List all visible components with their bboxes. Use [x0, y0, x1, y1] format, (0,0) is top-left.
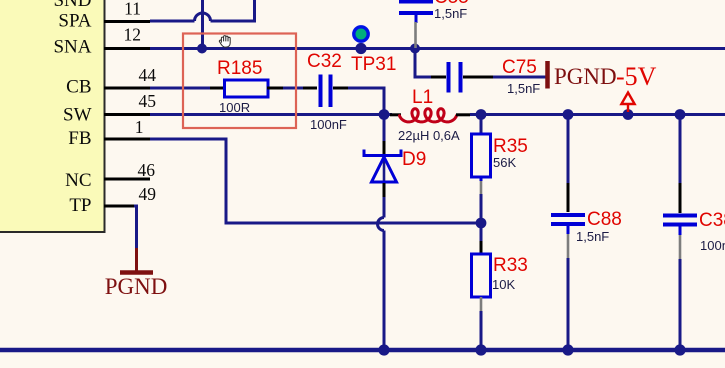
label C75 — [502, 57, 537, 78]
junction bottom x680 — [674, 344, 685, 355]
wire FB net — [150, 139, 481, 223]
junction rail x384 — [379, 109, 390, 120]
value 22uH 0,6A — [398, 128, 460, 143]
inductor L1 coil — [400, 109, 457, 122]
label L1 — [412, 87, 433, 108]
wire rail L1 to right edge — [470, 113, 725, 116]
pin 46 stub — [104, 178, 150, 181]
wire SPA net horizontal with hop — [150, 0, 256, 23]
wire C75 branch from SNA junction — [415, 49, 431, 78]
capacitor C88 plates — [551, 215, 585, 224]
junction SNA under TP31 — [355, 43, 366, 54]
wire bottom ground rail — [0, 348, 725, 353]
label C38 (clipped) — [699, 210, 725, 231]
junction bottom x481 — [475, 344, 486, 355]
svg-text:PGND: PGND — [105, 274, 168, 299]
svg-text:CB: CB — [66, 77, 91, 98]
capacitor C88 bottom lead — [567, 226, 570, 350]
resistor R33 bottom lead — [480, 297, 483, 350]
svg-text:1,5nF: 1,5nF — [507, 81, 540, 96]
svg-text:R185: R185 — [217, 58, 262, 79]
pin 45 stub — [104, 113, 150, 116]
value 56K — [493, 155, 516, 170]
pin SNA name — [53, 37, 91, 58]
junction rail x568 — [563, 109, 574, 120]
label R35 — [493, 136, 528, 157]
pin 12 number — [124, 25, 142, 45]
pin 46 number — [138, 160, 156, 180]
svg-text:SW: SW — [63, 105, 92, 126]
svg-text:100nF: 100nF — [310, 117, 347, 132]
resistor R35 bottom lead (gray+navy) — [480, 177, 483, 223]
svg-text:FB: FB — [68, 128, 91, 149]
junction rail x680 — [675, 109, 686, 120]
wire SW rail — [150, 113, 392, 116]
wire C32 to corner down to SW rail — [348, 88, 384, 115]
svg-text:1,5nF: 1,5nF — [576, 229, 609, 244]
svg-text:49: 49 — [139, 184, 157, 204]
capacitor C75 plates — [449, 62, 461, 93]
svg-text:NC: NC — [65, 170, 91, 191]
power port PGND text — [554, 64, 617, 89]
label C55 (clipped) — [434, 0, 469, 8]
wire TP pin to PGND — [134, 206, 137, 248]
capacitor C55 plates — [399, 2, 433, 24]
pin SPA name — [58, 11, 91, 32]
pin 44 number — [139, 65, 157, 85]
label TP31 — [351, 54, 396, 75]
junction FB x481 — [476, 218, 487, 229]
capacitor C88 top lead — [567, 115, 570, 213]
svg-text:SND: SND — [53, 0, 91, 11]
svg-text:C32: C32 — [307, 51, 342, 72]
pin TP name — [69, 195, 91, 216]
pin 12 stub — [104, 47, 150, 50]
pin 49 stub — [104, 205, 134, 208]
svg-text:TP: TP — [69, 195, 91, 216]
pin 11 number — [124, 0, 141, 19]
capacitor C38 top lead — [679, 115, 682, 214]
svg-text:L1: L1 — [412, 87, 433, 108]
junction rail x481 — [476, 109, 487, 120]
label R185 — [217, 58, 262, 79]
pin 1 stub — [104, 138, 150, 141]
resistor R33 top lead — [480, 223, 483, 254]
pin 49 number — [139, 184, 157, 204]
value 100nF (clipped) — [700, 238, 725, 253]
capacitor C75 right pin — [463, 76, 493, 79]
svg-text:1: 1 — [135, 117, 144, 137]
pin SW name — [63, 105, 92, 126]
label R33 — [493, 255, 528, 276]
svg-text:56K: 56K — [493, 155, 516, 170]
pin NC name — [65, 170, 91, 191]
pin 1 number — [135, 117, 144, 137]
label D9 — [402, 149, 426, 170]
inductor L1 right pin — [456, 113, 470, 116]
svg-text:44: 44 — [139, 65, 157, 85]
svg-text:46: 46 — [138, 160, 156, 180]
inductor L1 left pin — [390, 113, 401, 116]
selection rectangle around R185 — [183, 34, 296, 129]
diode D9 top pin — [383, 141, 386, 156]
capacitor C75 left pin — [431, 76, 446, 79]
wire CB net: stub to R185 — [150, 87, 213, 90]
wire C75 to PGND port — [493, 76, 546, 79]
svg-text:-5V: -5V — [616, 62, 657, 91]
capacitor C38 bottom lead — [679, 227, 682, 351]
svg-text:PGND: PGND — [554, 64, 617, 89]
svg-text:11: 11 — [124, 0, 141, 19]
value 1,5nF of C55 — [434, 6, 467, 21]
diode D9 bottom pin — [383, 183, 386, 197]
power port PGND bar — [545, 61, 550, 89]
svg-text:100nF: 100nF — [700, 238, 725, 253]
label C32 — [307, 51, 342, 72]
junction bottom x384 — [378, 344, 389, 355]
test point TP31 circle — [354, 27, 368, 41]
label C88 — [587, 209, 622, 230]
pin FB name — [68, 128, 91, 149]
ground PGND text — [105, 274, 168, 299]
resistor R35 top lead — [480, 115, 483, 135]
pin SND name — [53, 0, 91, 11]
svg-text:C38: C38 — [699, 210, 725, 231]
resistor R185 body — [225, 80, 269, 97]
ground PGND lead (maroon) — [135, 248, 138, 271]
svg-text:10K: 10K — [492, 277, 515, 292]
svg-text:100R: 100R — [219, 100, 250, 115]
svg-text:1,5nF: 1,5nF — [434, 6, 467, 21]
hand cursor — [219, 36, 230, 48]
svg-text:SPA: SPA — [58, 11, 91, 32]
svg-text:45: 45 — [139, 91, 157, 111]
resistor R185 left pin — [210, 87, 225, 90]
svg-text:22µH 0,6A: 22µH 0,6A — [398, 128, 460, 143]
IC U1 body (yellow) — [0, 0, 105, 232]
capacitor C32 plates — [321, 75, 331, 108]
junction SNA x202 — [197, 44, 207, 54]
svg-text:D9: D9 — [402, 149, 426, 170]
capacitor C32 right pin — [333, 87, 348, 90]
resistor R35 body — [472, 134, 491, 177]
wire D9 branch down from rail — [383, 115, 386, 142]
svg-text:TP31: TP31 — [351, 54, 396, 75]
junction SNA x415 — [410, 44, 420, 54]
wire gray C55 to SNA — [414, 22, 417, 48]
power port -5V triangle — [621, 93, 634, 113]
resistor R185 right pin — [267, 87, 283, 90]
value 1,5nF of C88 — [576, 229, 609, 244]
value 100nF — [310, 117, 347, 132]
svg-text:C75: C75 — [502, 57, 537, 78]
power port -5V text — [616, 62, 657, 91]
junction rail x628 — [623, 109, 634, 120]
wire SNA net horizontal — [150, 47, 725, 50]
capacitor C32 left pin — [303, 87, 317, 90]
svg-text:SNA: SNA — [53, 37, 91, 58]
wire vertical into SNA from top — [201, 0, 204, 49]
wire R185 to C32 — [283, 87, 303, 90]
pin 11 stub — [104, 20, 150, 23]
diode D9 (zener) — [364, 150, 401, 184]
junction bottom x568 — [562, 344, 573, 355]
wire D9 to bottom rail with hop over FB wire — [378, 197, 384, 350]
svg-text:R35: R35 — [493, 136, 528, 157]
svg-text:R33: R33 — [493, 255, 528, 276]
value 100R — [219, 100, 250, 115]
value 1,5nF of C75 — [507, 81, 540, 96]
capacitor C38 plates — [663, 216, 697, 225]
value 10K — [492, 277, 515, 292]
svg-text:C88: C88 — [587, 209, 622, 230]
pin CB name — [66, 77, 91, 98]
svg-text:12: 12 — [124, 25, 142, 45]
ground PGND bar — [120, 270, 153, 275]
pin 44 stub — [104, 87, 150, 90]
resistor R33 body — [472, 254, 491, 297]
pin 45 number — [139, 91, 157, 111]
